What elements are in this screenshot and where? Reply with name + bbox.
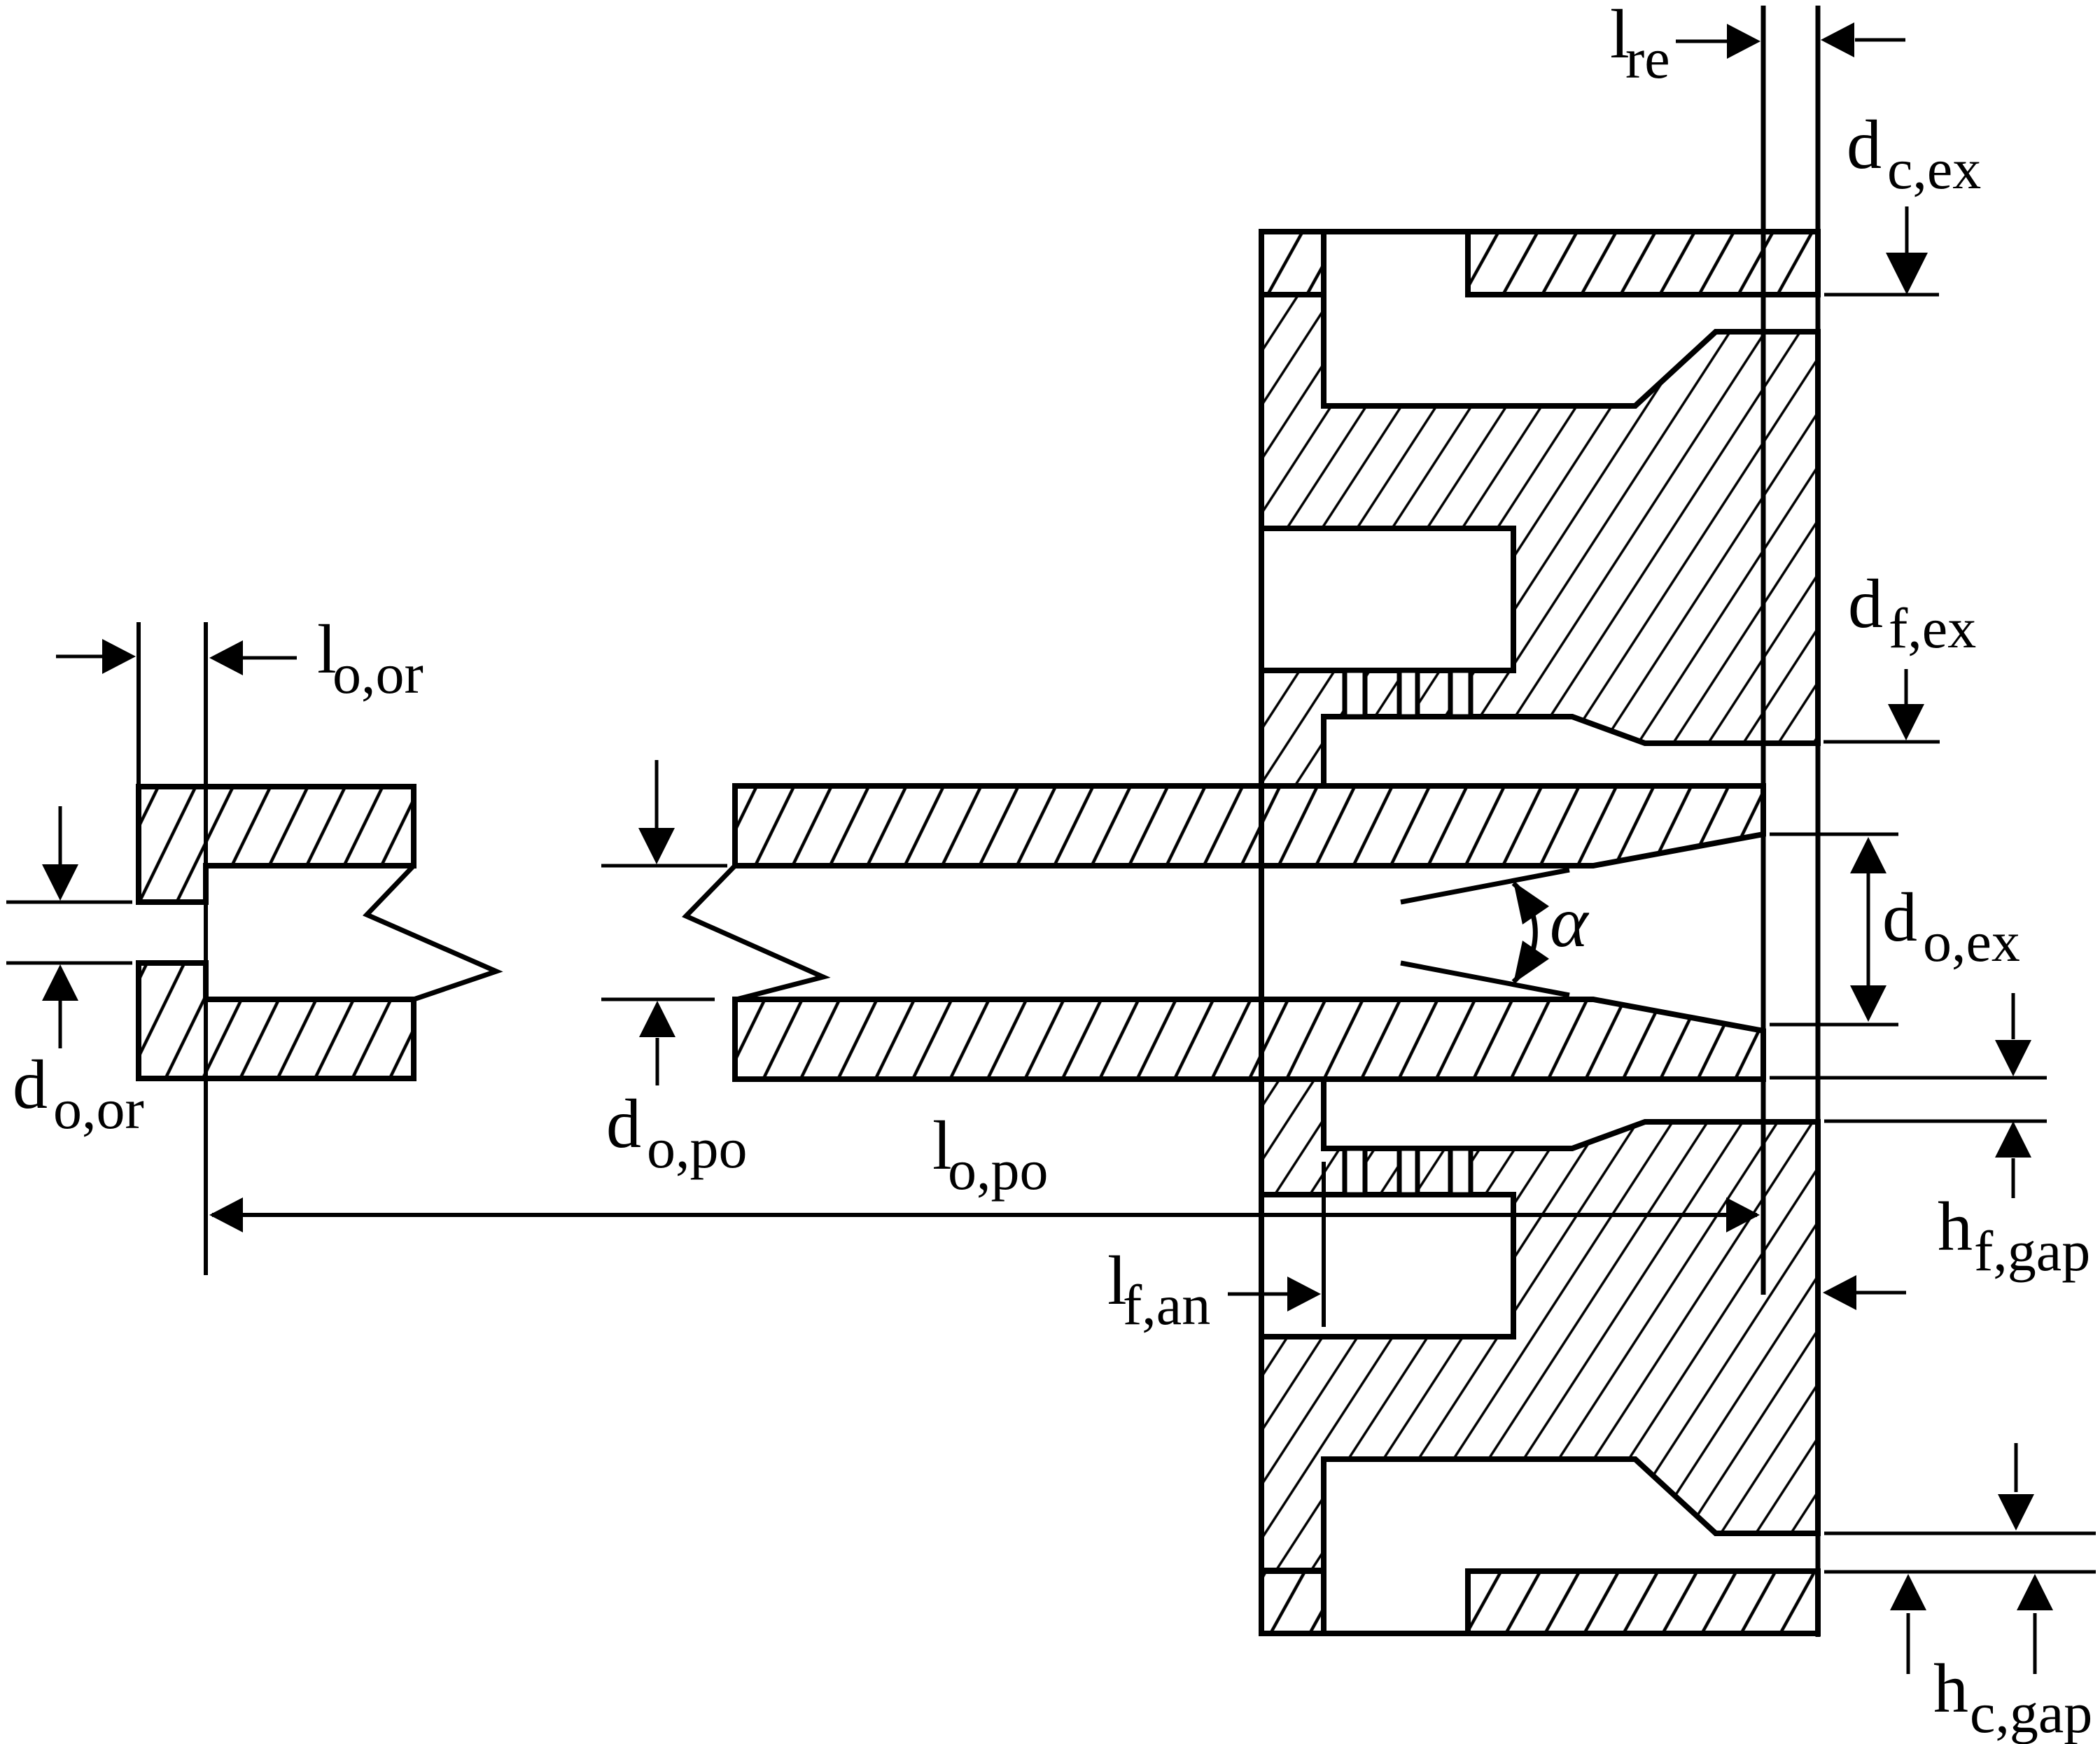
dim h_f,gap bottom extension line (sleeve surface) bbox=[1824, 1120, 2047, 1123]
svg-text:o,po: o,po bbox=[647, 1116, 748, 1180]
svg-text:h: h bbox=[1933, 1650, 1968, 1727]
dim d_o,or up arrow bbox=[59, 1001, 62, 1048]
dim h_c,gap up arrow 1 bbox=[1907, 1613, 1910, 1674]
alpha arc lower arrowhead bbox=[1513, 941, 1549, 983]
orifice piece break zigzag bbox=[367, 866, 496, 999]
svg-text:α: α bbox=[1550, 882, 1590, 962]
fuel slot 3 bottom bbox=[1450, 1148, 1471, 1195]
dim d_c,ex extension line bbox=[1824, 293, 1939, 297]
dim h_f,gap top extension line (post outer) bbox=[1770, 1076, 2047, 1080]
dim h_c,gap top extension line bbox=[1824, 1532, 2096, 1535]
dim h_f,gap up arrow bbox=[2012, 1158, 2015, 1198]
orifice piece upper wall bbox=[139, 787, 414, 902]
oxidizer post upper wall bbox=[735, 786, 1763, 866]
dim d_o,po down arrow bbox=[655, 760, 659, 829]
svg-text:d: d bbox=[606, 1085, 641, 1162]
svg-text:d: d bbox=[1847, 106, 1882, 183]
svg-text:o,po: o,po bbox=[948, 1138, 1049, 1202]
orifice piece lower wall bbox=[139, 963, 414, 1078]
alpha cone lower extension line bbox=[1401, 963, 1569, 995]
dim h_c,gap down arrow bbox=[2015, 1443, 2018, 1492]
dim h_f,gap down arrow bbox=[2012, 993, 2015, 1039]
dim l_re right-pointing arrow bbox=[1676, 40, 1728, 43]
chamber wall bottom band left stub bbox=[1261, 1571, 1324, 1633]
alpha arc upper arrowhead bbox=[1513, 882, 1549, 924]
chamber wall top outer line across notch bbox=[1324, 229, 1468, 234]
svg-text:re: re bbox=[1625, 27, 1670, 90]
dim l_re left-pointing arrow bbox=[1855, 38, 1905, 42]
fuel slot 2 top bbox=[1399, 670, 1417, 717]
faceplate body upper half bbox=[1261, 295, 1818, 786]
oxidizer post lower wall bbox=[735, 999, 1763, 1079]
svg-text:c,ex: c,ex bbox=[1887, 137, 1981, 201]
svg-text:o,or: o,or bbox=[53, 1077, 144, 1141]
dim d_o,po up arrow bbox=[656, 1038, 659, 1085]
assembly outer left edge bbox=[1259, 232, 1264, 1633]
dim d_o,ex bottom extension line bbox=[1770, 1023, 1898, 1027]
dim d_o,ex double arrow bbox=[1867, 873, 1870, 985]
dim l_o,or left vertical extension line bbox=[136, 622, 141, 787]
fuel slot 3 top bbox=[1450, 670, 1471, 717]
fuel slot 1 top bbox=[1345, 670, 1365, 717]
dim l_o,or left-pointing arrow bbox=[241, 656, 297, 660]
dim l_o,po shaft bbox=[212, 1213, 1757, 1217]
dim d_o,po bottom extension line bbox=[601, 998, 715, 1001]
faceplate face vertical line B bbox=[1816, 6, 1821, 1637]
chamber wall bottom outer line across notch bbox=[1324, 1631, 1468, 1636]
chamber wall top band right section bbox=[1468, 232, 1818, 295]
dim l_o,or right-pointing arrow bbox=[56, 655, 105, 659]
fuel slot 1 bottom bbox=[1345, 1148, 1365, 1195]
dim h_c,gap up arrow 2 bbox=[2033, 1613, 2037, 1674]
dim d_o,ex top extension line bbox=[1770, 833, 1898, 836]
dim l_f,an right-pointing arrow bbox=[1228, 1293, 1290, 1296]
svg-text:d: d bbox=[1882, 878, 1917, 956]
chamber wall bottom band right section bbox=[1468, 1571, 1818, 1633]
dim d_c,ex arrow bbox=[1905, 206, 1909, 253]
chamber wall top band left stub bbox=[1261, 232, 1324, 295]
svg-text:f,an: f,an bbox=[1123, 1273, 1210, 1337]
dim l_o,po left arrowhead bbox=[209, 1197, 243, 1232]
dim d_f,ex extension line bbox=[1823, 740, 1940, 744]
svg-text:f,gap: f,gap bbox=[1974, 1219, 2090, 1283]
svg-text:h: h bbox=[1938, 1188, 1973, 1265]
dim d_o,po top extension line bbox=[601, 864, 727, 868]
oxidizer post break zigzag bbox=[686, 866, 823, 999]
dim d_o,or bottom extension line bbox=[6, 962, 132, 965]
svg-text:c,gap: c,gap bbox=[1970, 1681, 2092, 1744]
svg-text:f,ex: f,ex bbox=[1889, 596, 1976, 660]
alpha dimension arc bbox=[1513, 883, 1535, 982]
dim l_f,an extension tick bbox=[1322, 1162, 1326, 1327]
dim l_o,po right arrowhead bbox=[1726, 1197, 1760, 1232]
dim d_o,or top extension line bbox=[6, 901, 132, 904]
fuel slot 2 bottom bbox=[1399, 1148, 1417, 1195]
svg-text:o,or: o,or bbox=[332, 642, 423, 705]
svg-text:d: d bbox=[1848, 565, 1883, 642]
post tip plane vertical line A bbox=[1761, 6, 1766, 1295]
alpha cone upper extension line bbox=[1401, 870, 1569, 902]
dim l_o,or / l_o,po reference vertical line bbox=[204, 622, 208, 1275]
dim d_o,or down arrow bbox=[59, 806, 62, 864]
dim d_f,ex arrow bbox=[1905, 669, 1908, 705]
dim l_f,an left-pointing arrow at face bbox=[1855, 1291, 1906, 1295]
svg-text:o,ex: o,ex bbox=[1923, 910, 2020, 973]
dim h_c,gap bottom extension line bbox=[1824, 1570, 2096, 1574]
svg-text:d: d bbox=[13, 1046, 48, 1123]
faceplate body lower half bbox=[1261, 1079, 1818, 1570]
